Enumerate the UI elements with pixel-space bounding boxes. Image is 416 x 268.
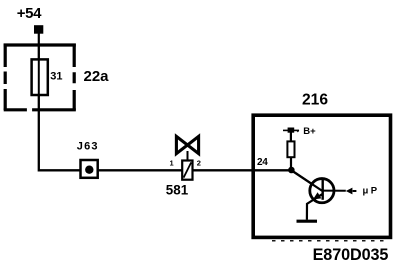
svg-text:22a: 22a (84, 68, 110, 85)
arrow from microprocessor (solid arrowhead) (346, 188, 357, 195)
transistor Q (circle) (310, 179, 334, 203)
wire from terminal +54 down to fuse box (38, 34, 40, 46)
label 216 (302, 92, 328, 109)
pin 24 label (257, 157, 268, 168)
junction (node) at pin 24 / resistor / base (288, 167, 295, 174)
stem wire from valve to coil (187, 151, 189, 161)
drawing number label E870D035 (313, 246, 389, 264)
wire from resistor up to B+ tap (290, 130, 292, 141)
wire through fuse down to corner then right to J63 (39, 45, 81, 170)
transistor base bar (291, 170, 322, 200)
B+ tap symbol (bar with solid arrow) (283, 128, 299, 133)
svg-text:E870D035: E870D035 (313, 246, 389, 264)
svg-text:31: 31 (50, 70, 62, 82)
transistor emitter with arrow to ground (307, 192, 323, 220)
label B+ (303, 126, 316, 137)
solenoid coil 581 (rectangle with slash) (182, 161, 192, 180)
power terminal +54 square (34, 25, 43, 34)
connector J63 (box with contact dot) (81, 160, 98, 178)
ground symbol (297, 220, 318, 223)
svg-text:2: 2 (197, 159, 201, 168)
resistor (pull-up to B+) (287, 141, 294, 157)
wire from coil pin 2 to control unit 216 pin 24 (193, 169, 292, 171)
valve symbol (bowtie) of solenoid 581 (176, 136, 198, 153)
value label 31 (fuse rating) (50, 70, 62, 82)
svg-text:B+: B+ (303, 126, 316, 137)
pin 1 label (170, 159, 174, 168)
label J63 (77, 141, 99, 153)
svg-text:581: 581 (166, 182, 189, 197)
power terminal +54 label (17, 5, 42, 22)
wire from transistor to microprocessor arrow (323, 190, 346, 192)
fuse S (rectangle) in box 22a (32, 59, 48, 95)
wire (diagonal) from junction to transistor base (291, 170, 322, 191)
label 581 (166, 182, 189, 197)
svg-text:μP: μP (363, 186, 380, 197)
wire from junction up to resistor (290, 142, 292, 171)
pin 2 label (197, 159, 201, 168)
label microprocessor (363, 186, 380, 197)
svg-text:1: 1 (170, 159, 174, 168)
wire from J63 to solenoid coil pin 1 (98, 169, 183, 171)
svg-text:J63: J63 (77, 141, 99, 153)
svg-text:+54: +54 (17, 5, 42, 22)
control unit 216 enclosure box (253, 115, 390, 241)
svg-text:24: 24 (257, 157, 268, 168)
svg-text:216: 216 (302, 92, 328, 109)
fuse holder box 22a (dashed enclosure) (4, 44, 76, 111)
label 22a (84, 68, 110, 85)
